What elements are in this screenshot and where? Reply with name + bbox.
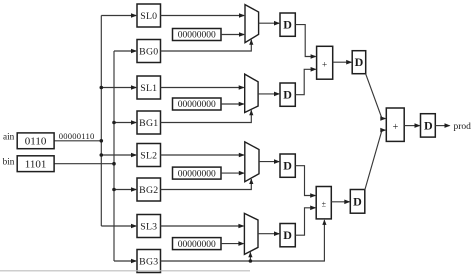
svg-text:D: D: [283, 88, 292, 102]
svg-text:00000000: 00000000: [178, 240, 216, 250]
svg-text:SL2: SL2: [140, 150, 157, 161]
svg-text:0110: 0110: [25, 136, 47, 148]
svg-text:00000000: 00000000: [178, 169, 216, 179]
svg-text:D: D: [283, 228, 292, 242]
svg-text:1101: 1101: [25, 159, 47, 171]
svg-text:BG2: BG2: [139, 185, 158, 196]
svg-text:+: +: [393, 122, 399, 133]
svg-text:prod: prod: [454, 122, 472, 132]
svg-text:±: ±: [322, 199, 327, 208]
svg-text:BG3: BG3: [139, 256, 158, 267]
svg-text:00000000: 00000000: [178, 31, 216, 41]
svg-text:SL0: SL0: [140, 11, 157, 22]
svg-text:ain: ain: [3, 132, 15, 142]
svg-text:D: D: [283, 18, 292, 32]
svg-text:D: D: [355, 55, 364, 69]
svg-text:+: +: [322, 60, 327, 70]
svg-text:BG1: BG1: [139, 118, 158, 129]
svg-text:D: D: [353, 194, 362, 208]
svg-text:SL1: SL1: [140, 83, 157, 94]
svg-text:D: D: [424, 118, 433, 132]
svg-text:bin: bin: [3, 157, 15, 167]
svg-text:BG0: BG0: [139, 46, 158, 57]
svg-text:00000000: 00000000: [178, 100, 216, 110]
svg-text:SL3: SL3: [140, 221, 157, 232]
svg-text:D: D: [283, 159, 292, 173]
svg-text:00000110: 00000110: [59, 131, 95, 141]
